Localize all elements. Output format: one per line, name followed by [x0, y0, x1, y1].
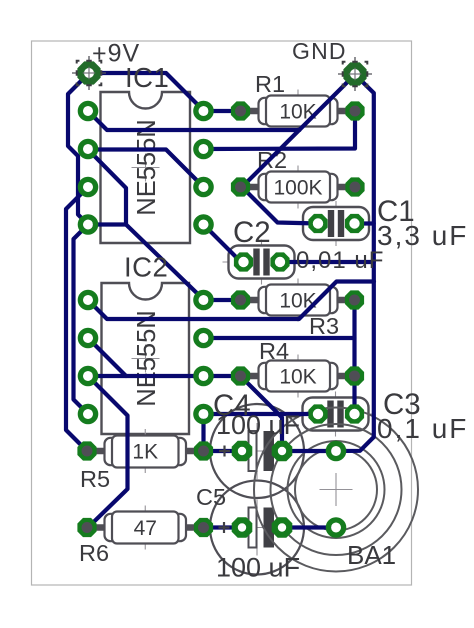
- wire GND pad to right vertical rail: [336, 75, 374, 452]
- pad R5 right: [194, 441, 213, 460]
- svg-text:100K: 100K: [273, 177, 322, 200]
- svg-text:47: 47: [134, 517, 157, 540]
- wire IC2 pin5 to GND rail diagonal: [88, 282, 374, 320]
- svg-text:R4: R4: [259, 338, 289, 364]
- pad IC2 pin 7 right: [196, 330, 211, 345]
- svg-text:NE555N: NE555N: [133, 310, 161, 406]
- pad R3 right: [345, 290, 364, 309]
- pad IC2 pin 6 right: [196, 368, 211, 383]
- pad IC1 pin 2 left: [80, 141, 95, 156]
- wire C4 right pad to BA1 top pad: [282, 449, 336, 453]
- resistor R1 body: [251, 110, 346, 112]
- IC package outline IC1: [132, 167, 160, 169]
- wire IC1 pin1 to node under GND diagonal: [88, 111, 300, 130]
- svg-text:C2: C2: [233, 216, 271, 249]
- pad IC2 pin 8 right: [196, 292, 211, 307]
- wire R3 right pad to R4 right pad to C3 right pad: [352, 300, 356, 414]
- pad C3 left: [308, 404, 327, 423]
- pad IC1 pin 5 right: [196, 217, 211, 232]
- svg-text:GND: GND: [292, 38, 347, 64]
- wire R4 left pad to C4 plus pad: [241, 376, 283, 451]
- pad R2 left: [231, 177, 250, 196]
- pad R1 left: [231, 101, 250, 120]
- pad C1 left: [308, 214, 327, 233]
- resistor R5 body: [97, 450, 195, 452]
- pad C4 left: [232, 441, 253, 462]
- wire IC1 pin6 horizontal to R1 right pad: [204, 111, 356, 149]
- svg-text:R1: R1: [255, 71, 285, 97]
- pad R4 right: [345, 366, 364, 385]
- svg-text:NE555N: NE555N: [133, 119, 161, 215]
- pad IC2 pin 1 left: [80, 292, 95, 307]
- polarity mark + of C4: [219, 446, 230, 457]
- svg-text:BA1: BA1: [347, 540, 396, 570]
- pad R6 right: [194, 518, 213, 537]
- resistor R3 body: [251, 299, 346, 301]
- svg-text:100 uF: 100 uF: [216, 553, 300, 583]
- pad R1 right: [345, 101, 364, 120]
- wire IC1 pin4 stub to interior junction: [88, 222, 126, 226]
- wire IC2 pin2 to IC2 pin7: [88, 374, 241, 378]
- capacitor C3 body: [297, 413, 375, 415]
- pad IC1 pin 8 right: [196, 103, 211, 118]
- wire IC2 pin3 down to R5 right pad: [201, 414, 205, 451]
- svg-text:R6: R6: [79, 540, 109, 566]
- wire R2 left pad to C1 left pad: [242, 187, 318, 224]
- pad C1 right: [345, 214, 364, 233]
- wire IC1 pin2 diagonal down left interior: [88, 150, 126, 225]
- pad R3 left: [231, 290, 250, 309]
- svg-text:10K: 10K: [279, 366, 316, 389]
- pad C3 right: [345, 404, 364, 423]
- wire C5 right pad to BA1 bottom pad: [282, 525, 336, 529]
- IC package outline IC2: [132, 358, 160, 360]
- wire R5 right pad to C4 left pad: [204, 449, 243, 453]
- pad IC2 pin 2 left: [80, 330, 95, 345]
- pad C2 right: [270, 252, 289, 271]
- pad C5 left: [232, 517, 253, 538]
- wire +9V pad to IC1 pin8: [89, 73, 204, 111]
- power pad +9V: [72, 72, 106, 74]
- wire IC2 pin3 to C3 left pad: [204, 412, 319, 416]
- pad R4 left: [231, 366, 250, 385]
- svg-text:1K: 1K: [132, 441, 158, 464]
- svg-text:C5: C5: [196, 484, 226, 510]
- wire IC2 pin8 to R3 left pad: [204, 298, 241, 302]
- pad BA1 top: [328, 443, 343, 458]
- svg-text:IC1: IC1: [125, 62, 169, 93]
- pad IC2 pin 4 left: [80, 406, 95, 421]
- svg-text:100 uF: 100 uF: [216, 410, 300, 440]
- resistor R6 body: [97, 527, 195, 529]
- pad IC1 pin 3 left: [80, 179, 95, 194]
- ground pad GND: [338, 73, 372, 75]
- resistor R4 body: [251, 375, 346, 377]
- pad IC2 pin 3 left: [80, 368, 95, 383]
- wire R6 right pad to C5 left pad: [204, 525, 243, 529]
- wire IC1 pin4 to IC2 pin4 left rail: [74, 225, 89, 415]
- svg-text:R3: R3: [309, 313, 339, 339]
- pad R2 right: [345, 177, 364, 196]
- svg-text:0,01 uF: 0,01 uF: [296, 247, 384, 274]
- pad R6 left: [77, 518, 96, 537]
- capacitor C1 body: [297, 223, 375, 225]
- resistor R2 body: [251, 186, 346, 188]
- pad R5 left: [77, 441, 96, 460]
- electrolytic capacitor C4 body: [215, 450, 299, 452]
- wire IC1 pin5 to left +9V rail down to R5 left pad: [66, 187, 88, 451]
- svg-text:R5: R5: [80, 466, 110, 492]
- wire IC1 pin8 to R1 left pad: [204, 109, 241, 113]
- pad IC2 pin 5 right: [196, 406, 211, 421]
- board outline: [32, 41, 412, 585]
- pad C2 left: [234, 252, 253, 271]
- wire IC1 pin3 to C2 left pad: [204, 225, 244, 263]
- wire interior junction to IC2 pin8 diagonal: [126, 225, 204, 300]
- pad IC1 pin 4 left: [80, 217, 95, 232]
- svg-text:3,3 uF: 3,3 uF: [377, 220, 468, 251]
- electrolytic capacitor C5 body: [215, 527, 299, 529]
- capacitor C2 body: [223, 261, 301, 263]
- wire GND pad diagonal to R2 left pad: [242, 75, 355, 188]
- svg-text:0,1 uF: 0,1 uF: [377, 413, 468, 444]
- buzzer BA1 outline: [320, 489, 353, 491]
- pad IC1 pin 6 right: [196, 179, 211, 194]
- pad C4 right: [272, 441, 293, 462]
- pad BA1 bottom: [328, 520, 343, 535]
- wire IC2 pin6 horizontal to R3-R4 vertical: [204, 336, 355, 340]
- polarity mark + of C5: [219, 522, 230, 533]
- pad IC1 pin 1 left: [80, 103, 95, 118]
- wire +9V left rail to IC1 pin4: [68, 73, 89, 225]
- wire C1 right pad to GND rail: [355, 221, 374, 225]
- wire IC2 pin3 diagonal to R6 left pad: [88, 376, 128, 528]
- svg-text:IC2: IC2: [124, 252, 168, 283]
- pad C5 right: [272, 517, 293, 538]
- wire IC1 pin2 to IC1 pin7: [88, 150, 204, 188]
- pad IC1 pin 7 right: [196, 141, 211, 156]
- wire IC2 pin2 diagonal joining pin3 horizontal: [88, 338, 126, 376]
- wire C2 right pad to GND rail: [280, 260, 374, 264]
